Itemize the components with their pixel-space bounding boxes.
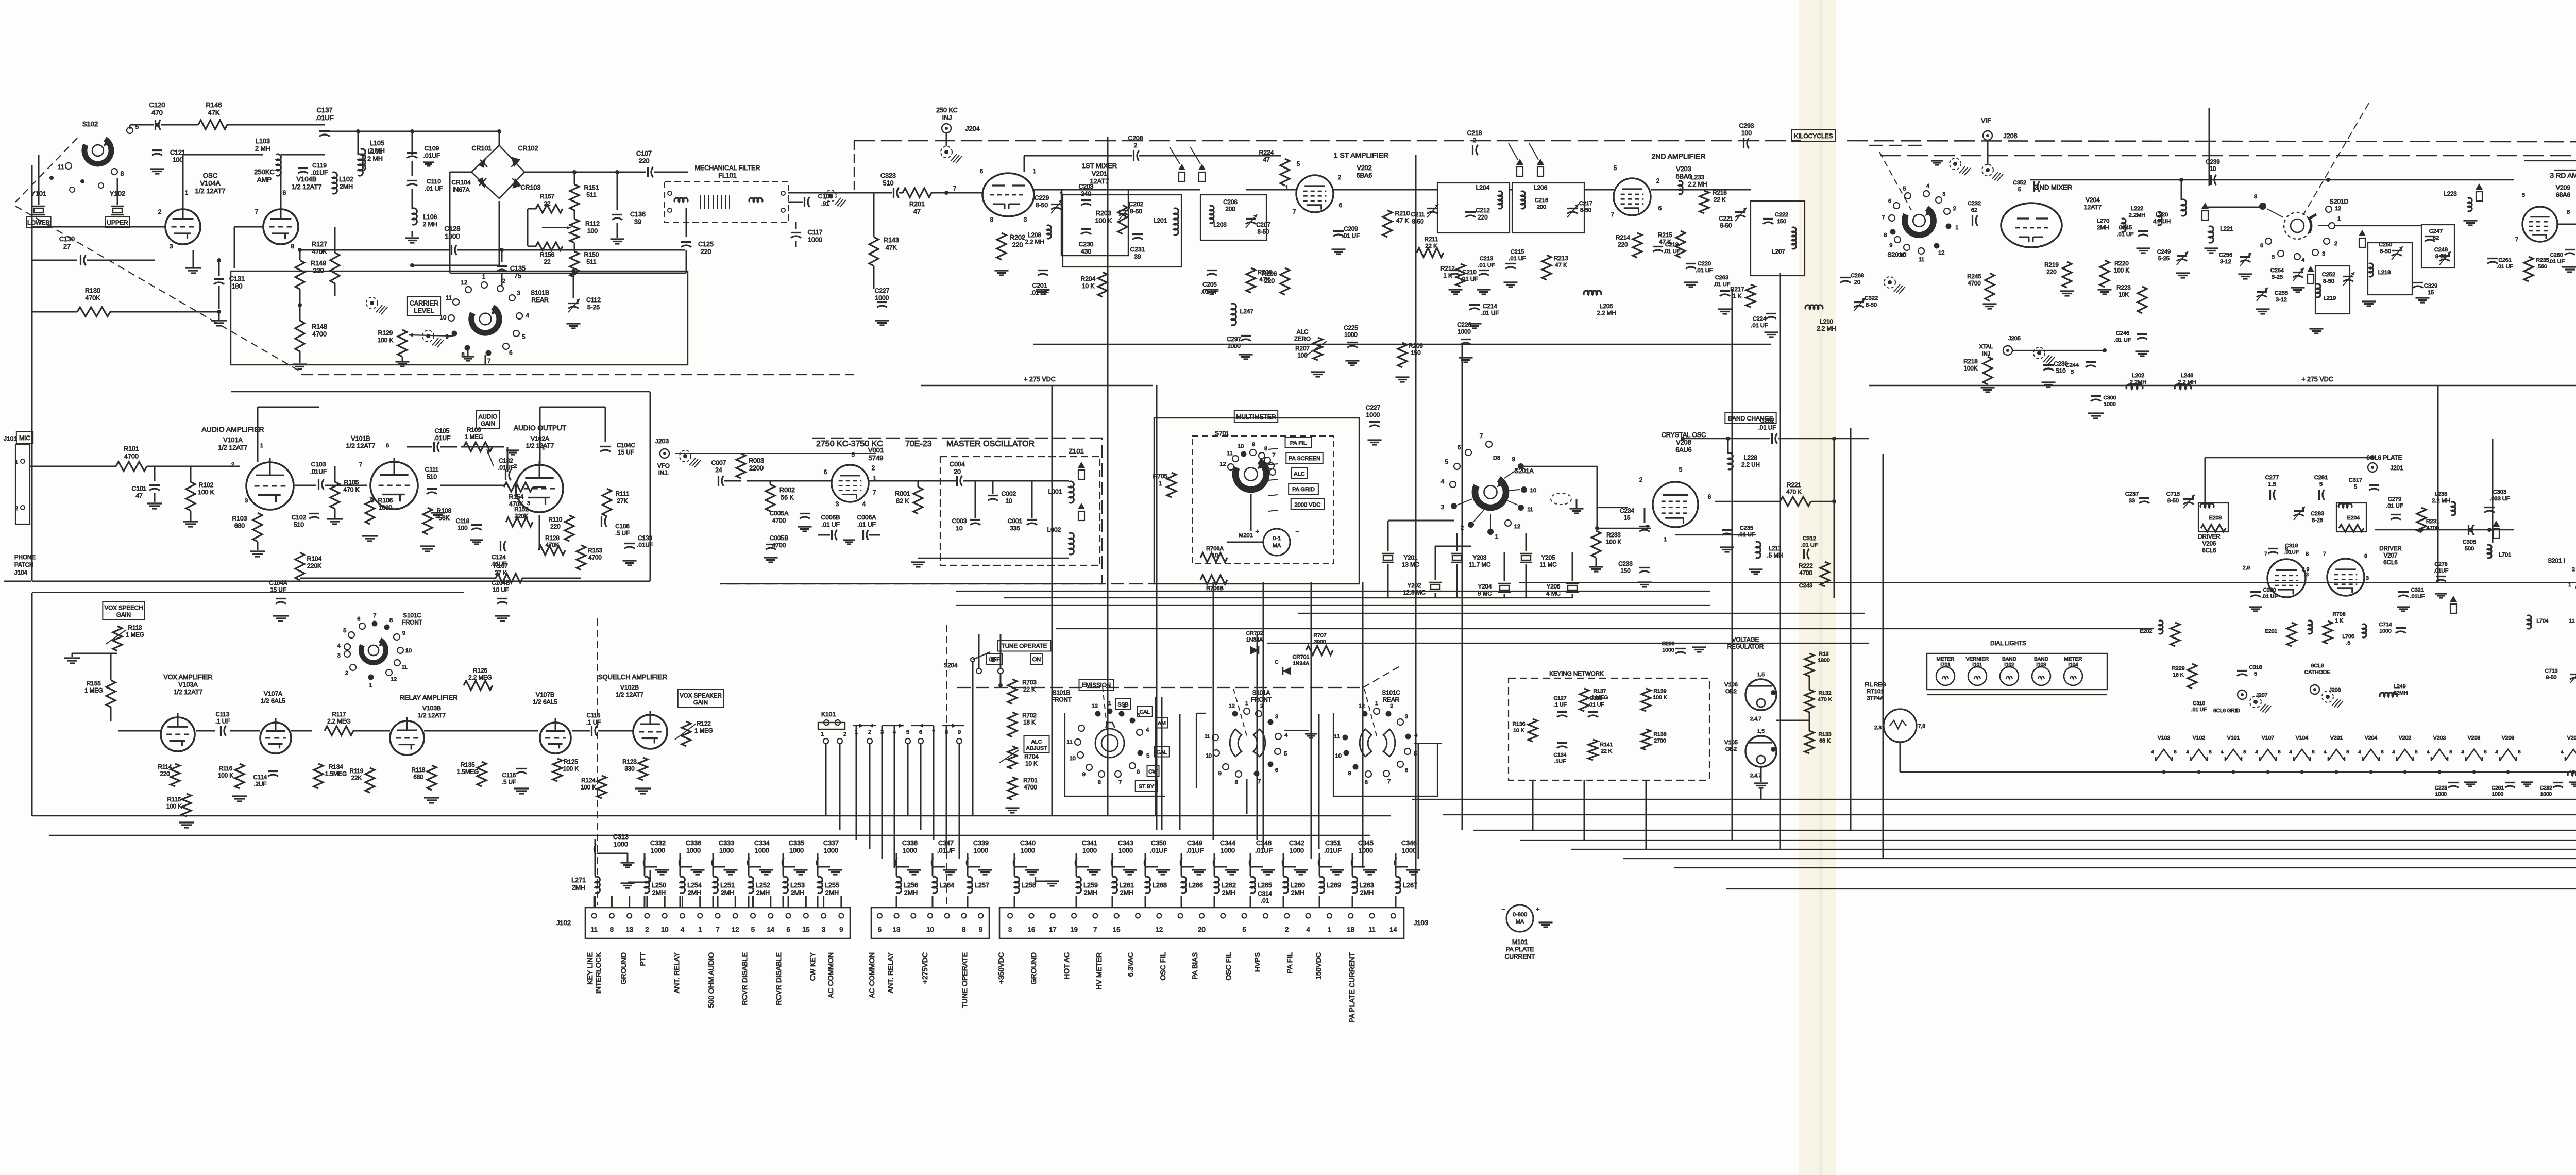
inductor L001	[1048, 481, 1074, 503]
svg-text:C232: C232	[1968, 200, 1981, 207]
resistor R130	[32, 287, 219, 316]
svg-text:AUDIO AMPLIFIER: AUDIO AMPLIFIER	[201, 425, 264, 433]
svg-text:C: C	[1275, 660, 1278, 665]
svg-text:+: +	[1536, 905, 1539, 913]
svg-text:11: 11	[1334, 733, 1340, 740]
svg-text:2: 2	[15, 506, 18, 512]
svg-text:.1 UF: .1 UF	[215, 719, 230, 725]
capacitor C300	[2088, 395, 2116, 418]
resistor R223	[2116, 285, 2147, 313]
wire plate up	[258, 407, 319, 462]
svg-text:C250: C250	[2379, 242, 2392, 248]
svg-text:2: 2	[1639, 477, 1642, 483]
svg-text:M101: M101	[1512, 938, 1528, 946]
svg-text:11: 11	[58, 163, 64, 171]
svg-text:19: 19	[1070, 926, 1077, 933]
capacitor C105	[407, 427, 457, 452]
svg-text:1ST MIXER: 1ST MIXER	[1082, 162, 1117, 170]
tube V101B	[346, 435, 418, 509]
capacitor C291	[2492, 782, 2533, 797]
svg-text:6: 6	[1339, 203, 1342, 209]
svg-text:47: 47	[913, 208, 921, 215]
capacitor C245b	[2116, 225, 2150, 253]
svg-text:5: 5	[2071, 369, 2074, 375]
capacitor C244	[2065, 362, 2096, 376]
svg-text:8-50: 8-50	[1412, 219, 1423, 225]
svg-text:R110: R110	[549, 517, 563, 523]
box L203	[1200, 195, 1266, 240]
svg-text:8: 8	[1264, 446, 1267, 452]
svg-text:C312: C312	[1803, 535, 1816, 542]
svg-text:V209: V209	[2556, 184, 2570, 191]
svg-text:C215: C215	[1511, 249, 1524, 255]
svg-text:4700: 4700	[588, 555, 602, 561]
label ALC	[1292, 468, 1307, 479]
svg-text:C205: C205	[1202, 282, 1217, 288]
resistor R113	[113, 625, 144, 651]
svg-text:.1 UF: .1 UF	[1553, 702, 1567, 708]
inductor L211	[1675, 535, 1783, 574]
svg-text:8: 8	[461, 352, 464, 359]
S201D contact 5	[2272, 250, 2284, 260]
label VOLTAGE REGULATOR	[1727, 637, 1764, 650]
svg-text:39: 39	[1134, 253, 1141, 260]
FL101 terminals	[668, 191, 785, 212]
resistor R153	[577, 545, 602, 570]
svg-text:C256: C256	[2219, 252, 2232, 258]
label PHONE PATCH	[4, 555, 36, 581]
svg-text:VFO: VFO	[657, 463, 670, 469]
svg-text:C352: C352	[2013, 180, 2026, 186]
svg-text:6: 6	[2567, 209, 2570, 215]
capacitor C339	[967, 840, 992, 876]
svg-text:C351: C351	[1325, 840, 1341, 847]
svg-text:L251: L251	[720, 882, 735, 889]
crystal Y205	[1520, 553, 1557, 568]
S101C contacts	[337, 613, 412, 689]
svg-text:C229: C229	[1035, 194, 1049, 202]
svg-text:6CL6: 6CL6	[2202, 548, 2216, 554]
svg-text:470K: 470K	[546, 543, 560, 549]
label VOX SPEAKER GAIN	[678, 690, 723, 708]
svg-text:S102: S102	[82, 120, 98, 128]
capacitor C132	[498, 458, 514, 480]
svg-text:1000: 1000	[686, 847, 701, 854]
svg-text:9: 9	[402, 630, 405, 636]
trimmer C229	[1035, 194, 1062, 213]
top dashed bus right	[1847, 141, 2576, 143]
svg-text:R153: R153	[588, 548, 602, 554]
svg-text:13: 13	[893, 926, 900, 933]
svg-text:−: −	[1295, 528, 1299, 535]
capacitor C201	[1030, 271, 1050, 297]
svg-text:2MH: 2MH	[756, 889, 770, 897]
extra gnd hook	[621, 870, 651, 888]
wire R146-C137	[227, 124, 325, 126]
label CRYSTAL OSC	[1662, 431, 1706, 454]
svg-text:39: 39	[634, 219, 641, 226]
svg-text:L253: L253	[790, 882, 805, 889]
svg-text:K101: K101	[821, 711, 836, 718]
svg-text:ADJUST: ADJUST	[1026, 745, 1047, 751]
svg-text:C291: C291	[2492, 785, 2504, 791]
svg-text:Z101: Z101	[1069, 447, 1084, 455]
resistor R217	[1730, 284, 1755, 307]
wire Y101 stem	[39, 155, 117, 205]
svg-text:.01UF: .01UF	[1186, 847, 1204, 854]
svg-text:FL101: FL101	[718, 172, 736, 179]
svg-text:.01UF: .01UF	[937, 847, 955, 854]
inductor L701	[2487, 521, 2511, 558]
svg-text:2200: 2200	[749, 465, 764, 472]
svg-text:C314: C314	[1258, 891, 1272, 897]
svg-text:8: 8	[2364, 553, 2367, 559]
tube V203	[1614, 178, 1651, 215]
svg-text:2,3: 2,3	[1874, 725, 1882, 731]
inductor L106	[405, 208, 438, 243]
svg-text:J104: J104	[14, 570, 28, 576]
svg-text:R106: R106	[378, 497, 393, 504]
pin 2	[158, 208, 162, 215]
svg-text:R137: R137	[1593, 688, 1606, 694]
svg-text:C227: C227	[1366, 404, 1381, 411]
coil E202	[2140, 620, 2180, 646]
svg-text:6: 6	[980, 169, 983, 175]
svg-text:1/2 6AL5: 1/2 6AL5	[261, 697, 285, 704]
svg-text:1000: 1000	[1290, 847, 1304, 854]
svg-text:R143: R143	[884, 237, 899, 244]
svg-text:ST BY: ST BY	[1139, 784, 1154, 790]
svg-text:S201A: S201A	[1514, 467, 1534, 475]
trimmer C322	[1854, 295, 1878, 311]
vert sw 5	[1418, 743, 1419, 859]
resistor R148	[293, 289, 327, 369]
svg-text:8: 8	[2254, 194, 2257, 200]
inductor L269	[1319, 877, 1341, 908]
pot R207	[1306, 338, 1327, 377]
svg-text:100 K: 100 K	[198, 489, 214, 496]
svg-text:R235: R235	[2536, 257, 2549, 263]
pins V203	[1611, 165, 1662, 218]
svg-text:XTAL: XTAL	[1979, 344, 1993, 350]
crystal Y202	[1403, 582, 1442, 596]
svg-text:V107A: V107A	[264, 690, 282, 697]
box C247	[2421, 225, 2454, 268]
svg-text:C216: C216	[1535, 197, 1548, 204]
wire if top	[1024, 156, 1281, 172]
svg-text:C347: C347	[938, 840, 954, 847]
svg-text:C350: C350	[1151, 840, 1166, 847]
svg-text:L247: L247	[1240, 308, 1254, 315]
capacitor C319	[2268, 543, 2299, 556]
svg-text:9: 9	[1082, 771, 1086, 778]
svg-text:V204: V204	[2365, 735, 2378, 741]
svg-text:2700: 2700	[1654, 738, 1666, 744]
svg-text:33: 33	[2129, 498, 2135, 504]
resistor R146	[198, 101, 227, 129]
svg-text:100 K: 100 K	[581, 785, 596, 791]
switch S101B FRONT	[1051, 686, 1124, 758]
svg-text:R216: R216	[1713, 190, 1727, 196]
resistor R221	[1715, 482, 1836, 506]
trimmer C252	[2307, 266, 2354, 286]
box L219	[2315, 266, 2350, 314]
svg-text:R125: R125	[564, 759, 578, 765]
inductor L267	[1396, 877, 1417, 908]
capacitor C234	[1620, 508, 1650, 532]
svg-text:220: 220	[701, 248, 711, 256]
S201A contact 2	[1461, 510, 1484, 531]
svg-text:L238: L238	[2435, 491, 2447, 497]
inductor L102	[332, 172, 353, 194]
svg-text:2,4,7: 2,4,7	[1750, 773, 1762, 779]
svg-text:8: 8	[291, 243, 295, 250]
label +275 VDC	[1024, 376, 1056, 383]
svg-text:47 K: 47 K	[1396, 217, 1409, 224]
svg-text:2.2 MH: 2.2 MH	[1025, 240, 1044, 246]
resistor R701	[1006, 777, 1038, 813]
capacitor C131	[214, 260, 245, 309]
svg-text:18 K: 18 K	[1023, 720, 1036, 726]
coil E201	[2265, 620, 2312, 646]
S102 contact 8	[111, 169, 124, 177]
resistor R157	[536, 193, 563, 213]
svg-text:VERNIER: VERNIER	[1966, 657, 1989, 662]
resistor R206	[1262, 268, 1290, 295]
capacitor C113	[215, 712, 230, 736]
svg-text:100 K: 100 K	[1606, 540, 1621, 546]
svg-text:16: 16	[1028, 926, 1035, 933]
svg-text:.01 UF: .01 UF	[1696, 267, 1713, 274]
capacitor C239	[2206, 159, 2220, 185]
svg-text:100K: 100K	[1964, 366, 1978, 372]
svg-text:R002: R002	[779, 486, 795, 494]
svg-text:FRONT: FRONT	[402, 620, 422, 626]
pins3	[514, 445, 545, 507]
arrows if2	[1509, 143, 1544, 176]
capacitor C332	[643, 840, 669, 876]
svg-text:5: 5	[2484, 749, 2486, 755]
inductor L254	[680, 877, 702, 908]
capacitor C220	[1684, 261, 1713, 287]
svg-text:6: 6	[509, 350, 512, 356]
svg-text:8: 8	[990, 217, 993, 223]
svg-text:1 K: 1 K	[2335, 618, 2343, 624]
capacitor C214	[1468, 304, 1499, 328]
svg-text:R102: R102	[199, 481, 214, 489]
svg-text:R704: R704	[1024, 754, 1039, 760]
vert key 3	[1646, 780, 1647, 849]
label V107A	[261, 690, 285, 704]
svg-text:1000: 1000	[824, 847, 838, 854]
filament V104	[2289, 735, 2314, 774]
svg-text:L256: L256	[904, 882, 918, 889]
capacitor C268	[1840, 273, 1864, 286]
pin 3	[170, 243, 173, 250]
svg-text:.01 UF: .01 UF	[425, 185, 443, 192]
capacitor C225	[1344, 325, 1359, 365]
svg-text:C319: C319	[2285, 543, 2298, 549]
trimmer C255	[2256, 288, 2289, 314]
svg-text:500 OHM AUDIO: 500 OHM AUDIO	[707, 952, 715, 1008]
svg-text:1000: 1000	[2435, 792, 2447, 797]
tube V102B	[633, 711, 667, 749]
solid line pair top	[2524, 161, 2576, 170]
pins V208	[1639, 467, 1711, 543]
svg-text:OSC FIL: OSC FIL	[1224, 952, 1232, 981]
svg-text:1 MEG: 1 MEG	[465, 434, 483, 441]
svg-text:INTERLOCK: INTERLOCK	[594, 952, 602, 994]
svg-text:8-50: 8-50	[1866, 302, 1877, 308]
long run 5	[1571, 849, 2576, 850]
svg-text:OSC: OSC	[203, 172, 217, 179]
svg-text:2: 2	[1338, 175, 1341, 181]
capacitor C114	[253, 771, 278, 788]
svg-text:22: 22	[544, 200, 551, 207]
svg-text:+ 275 VDC: + 275 VDC	[1024, 376, 1056, 383]
resistor R122	[682, 721, 713, 746]
top dashed bus B	[1880, 155, 2576, 156]
svg-text:DIAL LIGHTS: DIAL LIGHTS	[1990, 641, 2026, 647]
coil box E204	[2336, 503, 2366, 532]
svg-text:L223: L223	[2444, 191, 2457, 197]
svg-text:C249: C249	[2157, 249, 2171, 255]
svg-text:8-50: 8-50	[2380, 248, 2391, 255]
resistor R210	[1383, 210, 1410, 237]
svg-text:C349: C349	[1187, 840, 1202, 847]
svg-text:R212: R212	[1440, 266, 1455, 272]
svg-text:SQUELCH AMPLIFIER: SQUELCH AMPLIFIER	[598, 673, 667, 681]
svg-text:S201 I: S201 I	[2548, 558, 2565, 564]
svg-text:4: 4	[2289, 749, 2292, 755]
svg-text:510: 510	[2056, 368, 2065, 375]
svg-text:V206: V206	[2202, 541, 2216, 547]
S101A F contacts	[1204, 700, 1317, 814]
svg-text:8-50: 8-50	[2435, 254, 2447, 260]
svg-text:5: 5	[906, 729, 909, 735]
capacitor C205	[1201, 271, 1219, 295]
crystal Y203	[1451, 553, 1490, 568]
resistor R220	[2098, 260, 2130, 294]
svg-text:6: 6	[357, 616, 360, 622]
svg-text:C252: C252	[2322, 272, 2335, 278]
svg-text:6CL6: 6CL6	[2311, 663, 2324, 669]
tube V107A	[260, 718, 291, 753]
capacitor C320	[2249, 587, 2278, 611]
tube V206	[2243, 546, 2309, 597]
inductor L257	[968, 877, 989, 908]
svg-text:C212: C212	[1476, 208, 1490, 214]
multimeter box	[1154, 418, 1359, 584]
svg-text:L228: L228	[1744, 455, 1757, 461]
svg-text:7: 7	[953, 186, 956, 192]
svg-text:PA PLATE: PA PLATE	[1506, 946, 1534, 953]
svg-text:C342: C342	[1289, 840, 1304, 847]
svg-text:KILOCYCLES: KILOCYCLES	[1794, 132, 1833, 140]
svg-text:220: 220	[1012, 242, 1023, 249]
bus line 2	[49, 835, 1370, 836]
capacitor C006B	[821, 514, 840, 540]
svg-text:3: 3	[1008, 926, 1012, 933]
svg-text:C329: C329	[2424, 283, 2437, 289]
svg-text:3 RD AMPLIFIER: 3 RD AMPLIFIER	[2550, 172, 2576, 179]
svg-text:ALC: ALC	[1294, 471, 1304, 477]
capacitor C342	[1282, 840, 1308, 876]
svg-text:8: 8	[962, 926, 965, 933]
svg-text:R706A: R706A	[1206, 546, 1224, 552]
capacitor C281	[2314, 475, 2328, 500]
svg-text:.5 UF: .5 UF	[615, 531, 630, 537]
svg-text:Y204: Y204	[1478, 584, 1492, 590]
svg-text:5749: 5749	[869, 454, 884, 462]
svg-text:6: 6	[824, 469, 827, 476]
label KILOCYCLES	[1792, 130, 1835, 141]
svg-text:10 UF: 10 UF	[493, 587, 509, 594]
switch S101C FRONT	[361, 613, 422, 663]
inductor L270	[2097, 218, 2126, 232]
svg-text:6: 6	[386, 443, 389, 449]
svg-text:22K: 22K	[351, 776, 362, 782]
wire buses left	[32, 227, 650, 581]
svg-text:2MH: 2MH	[1291, 889, 1304, 897]
ground col 2010	[1036, 877, 1059, 886]
inductor L250	[645, 877, 666, 908]
svg-text:L203: L203	[1213, 222, 1227, 228]
pins V201	[953, 169, 1063, 223]
svg-text:J204: J204	[965, 125, 980, 132]
svg-text:R229: R229	[2172, 665, 2184, 672]
resistor R245	[1967, 273, 1996, 309]
resistor R156	[536, 242, 563, 265]
svg-text:R003: R003	[749, 457, 764, 464]
svg-text:5: 5	[1146, 753, 1149, 759]
wire top bus2	[325, 129, 499, 267]
svg-text:56 K: 56 K	[781, 494, 794, 501]
S201A contact 10	[1507, 486, 1536, 494]
crystal Y204	[1478, 583, 1511, 597]
capacitor C335	[782, 840, 808, 876]
svg-text:V207: V207	[2384, 553, 2398, 559]
svg-text:HOT AC: HOT AC	[1062, 952, 1071, 979]
capacitor C118	[456, 518, 483, 544]
inductor L258	[1014, 877, 1036, 908]
svg-text:7: 7	[359, 462, 362, 468]
svg-text:82: 82	[2433, 235, 2439, 241]
diode CR102	[511, 145, 538, 167]
resistor R126	[464, 668, 493, 690]
svg-text:1000: 1000	[1662, 647, 1674, 653]
svg-text:1: 1	[1159, 480, 1162, 487]
svg-text:62: 62	[1971, 207, 1977, 213]
svg-text:C321: C321	[2411, 587, 2424, 593]
svg-text:V105: V105	[1724, 740, 1738, 746]
svg-text:L105: L105	[368, 148, 382, 155]
svg-text:.01 UF: .01 UF	[857, 521, 876, 528]
svg-text:V203: V203	[2433, 735, 2446, 741]
svg-text:511: 511	[586, 191, 596, 198]
svg-text:14: 14	[1389, 926, 1397, 933]
svg-text:5: 5	[2354, 484, 2357, 490]
capacitor C340	[1013, 840, 1039, 876]
svg-text:1 MEG: 1 MEG	[694, 728, 713, 734]
svg-text:C201: C201	[1032, 282, 1047, 289]
S201A contact 7	[1480, 433, 1492, 447]
svg-text:5-25: 5-25	[2312, 517, 2323, 524]
mid h run2	[956, 591, 1710, 598]
svg-text:1000: 1000	[445, 232, 460, 240]
svg-text:R155: R155	[87, 681, 101, 687]
svg-text:V107B: V107B	[536, 691, 554, 698]
